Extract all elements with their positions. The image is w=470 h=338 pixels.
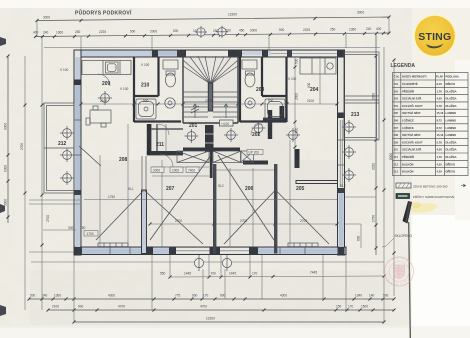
round stamp xyxy=(385,257,414,286)
verticals dropping to bottom dims xyxy=(74,255,384,322)
eaves outline xyxy=(44,47,380,49)
bottom dimension row 2 xyxy=(48,309,394,311)
svg-text:LAMINO: LAMINO xyxy=(446,119,457,123)
legend table xyxy=(393,73,469,176)
left exterior helper lines xyxy=(29,199,80,201)
mullions on windows xyxy=(74,120,344,255)
svg-text:1,76: 1,76 xyxy=(437,155,443,159)
svg-text:8,72: 8,72 xyxy=(437,119,443,123)
bath 210 fixtures xyxy=(136,60,178,119)
outer walls xyxy=(75,50,344,57)
bathroom 210 walls xyxy=(134,57,181,122)
bottom dimension row 3 xyxy=(74,321,384,323)
svg-text:4,00: 4,00 xyxy=(437,148,443,152)
stair enclosure 201 xyxy=(183,56,238,123)
stair central stringer xyxy=(208,83,212,111)
left edge mark top xyxy=(0,37,6,46)
boxed level labels xyxy=(151,167,164,173)
edge registration marks xyxy=(0,204,5,213)
hall 211 partitions xyxy=(152,124,184,151)
svg-text:5,78: 5,78 xyxy=(437,104,443,108)
stair arrows xyxy=(191,104,228,118)
svg-text:LAMINO: LAMINO xyxy=(446,133,457,137)
top dimension line 1 xyxy=(37,17,389,21)
kitchen 204 counter xyxy=(300,58,336,74)
svg-text:LAMINO: LAMINO xyxy=(446,111,457,115)
interior dim line y104 xyxy=(81,103,337,105)
light scan washes xyxy=(82,160,337,245)
svg-text:4,00: 4,00 xyxy=(437,97,443,101)
svg-text:4,20: 4,20 xyxy=(437,170,443,174)
svg-text:LAMINO: LAMINO xyxy=(446,126,457,130)
svg-text:8,16: 8,16 xyxy=(437,82,443,86)
window tint segments xyxy=(75,57,80,247)
svg-text:4,20: 4,20 xyxy=(437,162,443,166)
paper edge line xyxy=(409,222,411,338)
legend symbol 1: masonry xyxy=(396,183,411,188)
door arcs xyxy=(98,74,262,167)
stair winder fan xyxy=(183,56,238,84)
svg-text:ZDIVO BETONG 100-300: ZDIVO BETONG 100-300 xyxy=(413,185,448,189)
interior dim line y224 xyxy=(150,223,336,225)
balcony 213 right xyxy=(344,52,379,140)
bathroom 203 walls xyxy=(240,57,287,122)
interior vertical dim x295 xyxy=(294,57,296,150)
chimney block xyxy=(205,125,214,152)
svg-text:15,16: 15,16 xyxy=(437,133,444,137)
kitchen 209 counter xyxy=(82,61,131,75)
yellow smudge xyxy=(411,202,438,215)
dark pen wedge xyxy=(403,201,413,224)
stair steps left flight xyxy=(183,92,238,117)
top dimension line 2 xyxy=(35,33,389,37)
svg-text:8,72: 8,72 xyxy=(437,126,443,130)
glazed doors with X below stairs xyxy=(177,151,254,163)
partitions bottom rooms xyxy=(142,190,147,254)
bath 203 fixtures xyxy=(242,60,285,119)
legend symbol 2: plasterboard xyxy=(396,194,410,199)
interior dim line y200 left xyxy=(84,199,337,201)
svg-text:1,76: 1,76 xyxy=(437,89,443,93)
bottom dimension row 1 xyxy=(29,298,394,300)
svg-text:STING: STING xyxy=(418,31,451,43)
svg-text:5,78: 5,78 xyxy=(437,140,443,144)
svg-text:PODLAHA: PODLAHA xyxy=(446,75,459,79)
radiators xyxy=(98,243,318,247)
svg-text:PŘÍČKY SÁDROKARTONOVÉ: PŘÍČKY SÁDROKARTONOVÉ xyxy=(413,194,454,199)
scan noise overlay xyxy=(0,0,1,1)
interior thick walls xyxy=(147,124,152,154)
balcony 212 left xyxy=(44,103,74,193)
ceiling slope diagonals xyxy=(79,146,329,244)
svg-text:15,16: 15,16 xyxy=(437,111,444,115)
roof window marks on top dim xyxy=(195,26,207,38)
interior verticals xyxy=(100,56,320,247)
survey circles xyxy=(60,91,356,271)
table room 208 xyxy=(86,106,111,127)
inner bottom small dim xyxy=(170,276,384,277)
svg-text:PL.M²: PL.M² xyxy=(436,75,443,79)
